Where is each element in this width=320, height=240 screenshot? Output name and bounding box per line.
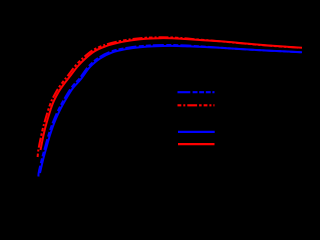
legend sample: dashed blue (178, 91, 215, 93)
solid blue curve (40, 46, 302, 173)
legend sample: solid red (178, 143, 215, 145)
legend sample: solid blue (178, 131, 215, 133)
solid red curve (41, 38, 303, 150)
legend sample: dashed red (178, 104, 215, 106)
dashed blue curve (approximation curve) (38, 45, 300, 177)
dashed red curve (approximation curve) (38, 37, 300, 157)
